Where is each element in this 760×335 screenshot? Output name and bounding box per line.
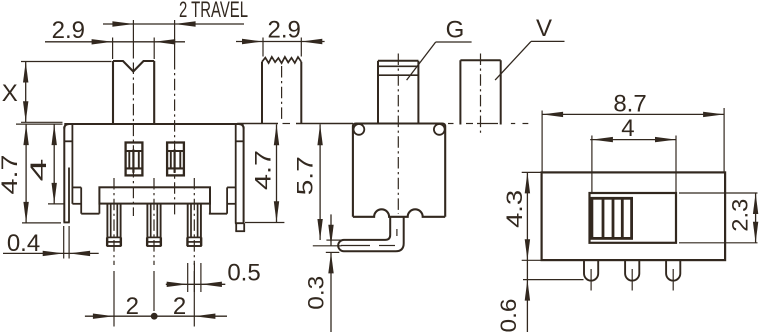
svg-text:0.3: 0.3 (303, 276, 328, 310)
svg-text:0.5: 0.5 (227, 260, 260, 287)
svg-text:2: 2 (173, 293, 186, 320)
svg-text:V: V (536, 15, 552, 42)
svg-text:X: X (2, 80, 18, 107)
svg-text:0.4: 0.4 (7, 230, 40, 257)
svg-text:2.9: 2.9 (268, 17, 301, 44)
svg-text:5.7: 5.7 (293, 156, 318, 195)
svg-text:2: 2 (126, 293, 139, 320)
svg-text:2.9: 2.9 (52, 17, 85, 44)
svg-text:4.3: 4.3 (502, 190, 527, 228)
svg-text:8.7: 8.7 (613, 91, 646, 118)
svg-text:2 TRAVEL: 2 TRAVEL (179, 0, 248, 22)
svg-text:4.7: 4.7 (0, 155, 22, 195)
svg-text:2.3: 2.3 (728, 199, 753, 232)
svg-text:G: G (446, 17, 465, 44)
svg-text:4: 4 (26, 159, 51, 182)
svg-text:4: 4 (621, 115, 634, 142)
svg-text:4.7: 4.7 (251, 150, 276, 190)
svg-text:0.6: 0.6 (496, 299, 521, 333)
